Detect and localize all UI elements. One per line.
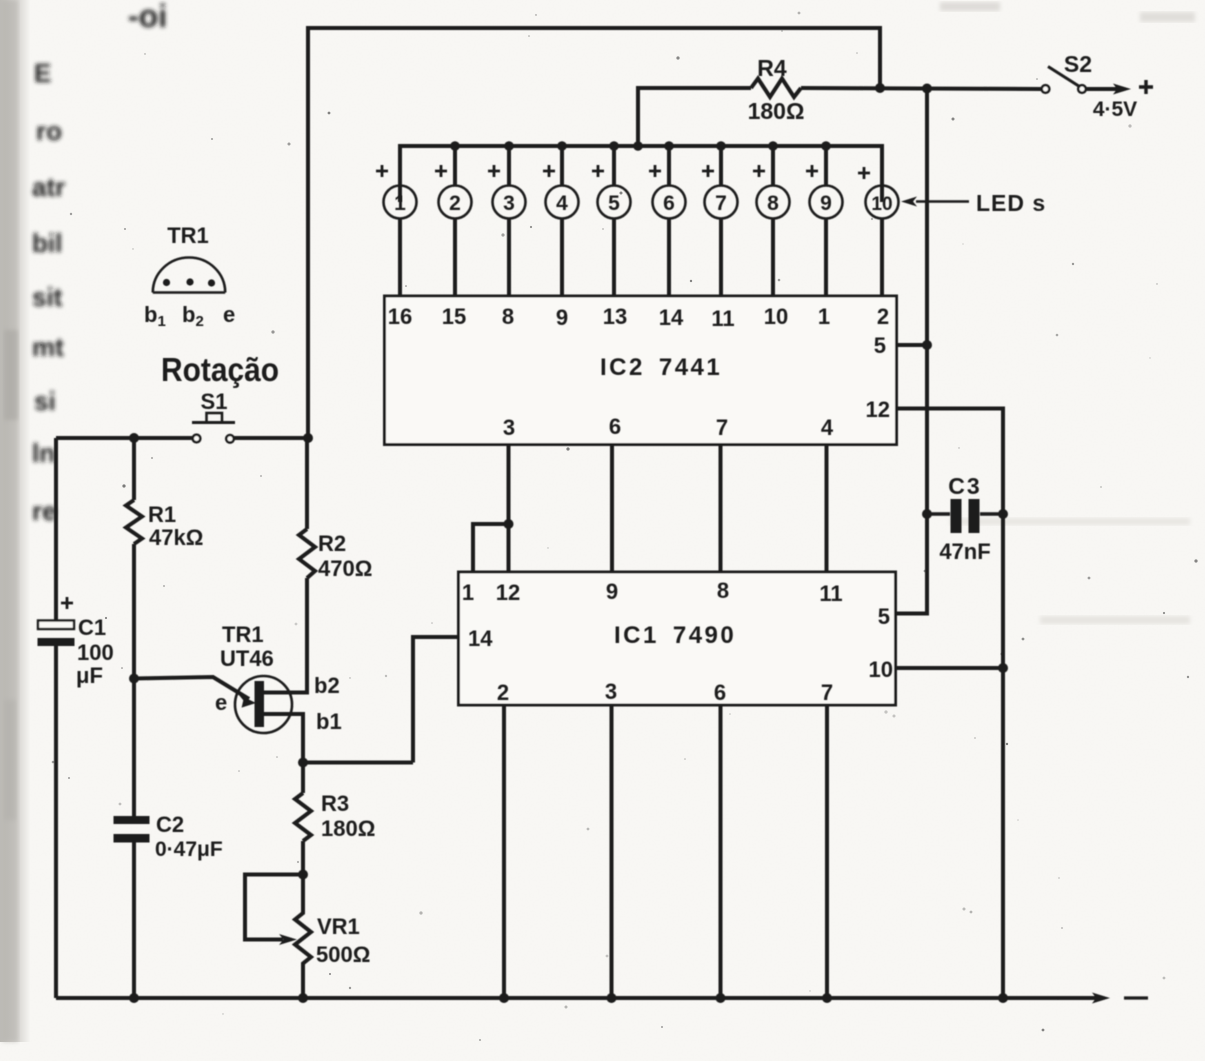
switch S1 (192, 413, 235, 443)
ground rail arrowhead (1092, 993, 1110, 1004)
wire IC2 pin6 to IC1 pin9 (610, 445, 614, 573)
svg-text:10: 10 (871, 194, 892, 215)
svg-text:TR1: TR1 (222, 622, 264, 647)
svg-text:R3: R3 (321, 791, 349, 816)
wire VR1 wiper loop (245, 875, 303, 940)
node VR1 top junction (298, 870, 308, 880)
wire S1 row right (234, 436, 309, 440)
capacitor C3 (927, 499, 1003, 533)
svg-text:10: 10 (869, 657, 893, 682)
svg-text:e: e (223, 302, 235, 327)
node b1 junction (298, 758, 308, 768)
wire S2 to supply arrow (1086, 84, 1131, 95)
VR1 wiper arrowhead (279, 934, 297, 945)
wire IC1 pin6 down (719, 705, 723, 998)
svg-text:1: 1 (394, 192, 406, 215)
node C3 right junction (998, 509, 1008, 519)
ground rail dash (1124, 996, 1148, 999)
svg-text:2: 2 (449, 192, 461, 215)
svg-text:-oi: -oi (128, 0, 167, 34)
svg-text:15: 15 (442, 304, 466, 329)
svg-text:6: 6 (663, 192, 675, 215)
node C3 left junction (922, 509, 932, 519)
svg-text:sit: sit (32, 282, 63, 312)
node bus junctions (450, 141, 831, 151)
svg-text:re: re (32, 496, 57, 526)
LED D5 (598, 186, 631, 297)
wire IC2 pin3 to IC1 pin12 (507, 445, 511, 573)
IC2 pin labels top (388, 304, 889, 331)
svg-text:3: 3 (503, 415, 515, 440)
svg-text:e: e (215, 690, 227, 715)
wire IC1 pin10 to right column (896, 666, 1004, 670)
svg-text:8: 8 (502, 304, 514, 329)
LED D2 (439, 186, 472, 297)
svg-text:5: 5 (878, 604, 890, 629)
wire IC2 pin5 to +V column (897, 343, 928, 347)
wire R2 column (305, 438, 309, 529)
svg-text:12: 12 (866, 397, 890, 422)
wire S1 row left (56, 436, 193, 440)
svg-text:4·5V: 4·5V (1093, 98, 1137, 121)
label supply plus (1139, 80, 1153, 94)
svg-text:9: 9 (556, 305, 568, 330)
wire R1 column upper (132, 438, 136, 500)
wire LED column 5 (612, 146, 616, 186)
LED D6 (653, 186, 686, 297)
svg-text:470Ω: 470Ω (318, 556, 372, 581)
svg-text:4: 4 (556, 192, 568, 215)
LED D4 (546, 186, 579, 297)
svg-text:0·47μF: 0·47μF (155, 838, 223, 861)
wire IC1 pin3 down (610, 705, 614, 998)
wire IC1 pin2 down (502, 705, 506, 998)
node R1 top junction (129, 433, 139, 443)
wire LED column 8 (771, 146, 775, 186)
svg-text:ln: ln (32, 438, 55, 468)
svg-text:11: 11 (819, 581, 842, 606)
svg-text:μF: μF (76, 663, 103, 688)
potentiometer VR1 (295, 902, 311, 974)
LED D1 (384, 186, 417, 297)
svg-text:si: si (34, 386, 56, 416)
wire LED column 4 (560, 146, 564, 186)
svg-text:9: 9 (606, 579, 618, 604)
svg-text:4: 4 (821, 415, 834, 440)
svg-text:5: 5 (874, 333, 886, 358)
wire R2 to b2 (263, 578, 307, 693)
LED numbers (394, 192, 892, 215)
wire VR1 top lead (301, 875, 305, 903)
wire IC2 pin4 to IC1 pin11 (825, 445, 829, 573)
svg-text:VR1: VR1 (317, 914, 360, 939)
transistor TR1 pinout symbol (153, 258, 225, 293)
wire R3 top lead (301, 763, 305, 794)
svg-text:7: 7 (715, 192, 727, 215)
wire LED column 2 (453, 146, 457, 186)
node IC2 pin5 junction (922, 340, 932, 350)
wire C2 to ground rail (132, 843, 136, 999)
svg-text:IC17490: IC17490 (614, 622, 736, 649)
wire top rail (308, 28, 880, 438)
wire b1 to IC1 pin14 (303, 761, 413, 765)
svg-text:bil: bil (32, 228, 62, 258)
svg-text:S1: S1 (201, 389, 228, 414)
wire LED column 9 (824, 146, 828, 186)
wire LED column 6 (667, 146, 671, 186)
IC1 pin labels top (462, 578, 843, 606)
svg-text:C3: C3 (948, 473, 981, 499)
svg-text:8: 8 (717, 578, 729, 603)
svg-text:6: 6 (714, 680, 726, 705)
resistor R3 (295, 793, 311, 841)
transistor TR1 (UJT) (134, 676, 292, 733)
svg-text:100: 100 (77, 640, 114, 665)
svg-text:Rotação: Rotação (161, 351, 279, 388)
wire +V column (896, 89, 928, 614)
svg-text:TR1: TR1 (167, 223, 209, 248)
wire b1 lead (263, 714, 303, 763)
LED D8 (757, 186, 790, 297)
LED D7 (705, 186, 738, 297)
svg-text:13: 13 (603, 304, 627, 329)
resistor R1 (126, 500, 142, 544)
svg-text:mt: mt (32, 332, 64, 362)
svg-text:14: 14 (659, 305, 684, 330)
svg-text:b2: b2 (314, 673, 340, 698)
wire R3 to VR1 junction (301, 841, 305, 875)
wire IC1 pin14 (413, 637, 459, 763)
wire IC1 pin1 strap (473, 524, 509, 572)
node emitter junction (129, 674, 139, 684)
svg-text:10: 10 (764, 304, 788, 329)
wire LED column 3 (507, 146, 511, 186)
svg-text:6: 6 (609, 414, 621, 439)
svg-text:2: 2 (497, 680, 509, 705)
svg-text:UT46: UT46 (220, 646, 274, 671)
IC1 pin labels bottom (497, 679, 833, 705)
wire IC2 pin12 to C3 right column (897, 409, 1004, 999)
node rail junctions (129, 993, 1008, 1003)
wire left rail lower (54, 646, 58, 998)
svg-text:180Ω: 180Ω (748, 98, 805, 124)
node +V column junction (922, 84, 932, 94)
svg-text:IC27441: IC27441 (600, 354, 722, 381)
anode bus (400, 146, 882, 202)
resistor R4 (751, 79, 801, 98)
svg-text:8: 8 (767, 192, 779, 215)
svg-text:16: 16 (388, 304, 412, 329)
capacitor C1 (38, 621, 75, 647)
svg-text:9: 9 (820, 192, 832, 215)
switch S2 (1042, 67, 1086, 93)
svg-text:1: 1 (462, 580, 474, 605)
svg-text:47kΩ: 47kΩ (149, 525, 203, 550)
wire R1 to emitter junction (132, 544, 136, 816)
IC2 pin labels bottom (503, 414, 834, 440)
LED plus polarity marks (376, 165, 870, 179)
node pin1 strap junction (504, 519, 514, 529)
wire IC1 pin7 down (825, 705, 829, 998)
wire R4 feed horizontal (638, 88, 751, 146)
node S1 right junction (303, 433, 313, 443)
svg-text:500Ω: 500Ω (316, 942, 370, 967)
LED D10 (866, 186, 899, 297)
IC U1 box (IC1 7490) (459, 572, 896, 705)
svg-text:7: 7 (716, 415, 728, 440)
node pin10 junction (998, 663, 1008, 673)
svg-text:7: 7 (821, 680, 833, 705)
svg-text:b1: b1 (316, 709, 342, 734)
wire IC2 pin7 to IC1 pin8 (719, 445, 723, 573)
LED D9 (810, 186, 843, 297)
LEDs pointer arrow (901, 197, 969, 207)
svg-text:atr: atr (32, 172, 65, 202)
ground rail (56, 996, 1101, 1000)
svg-text:5: 5 (608, 192, 620, 215)
svg-text:2: 2 (877, 304, 889, 329)
wire R4 to S2 (801, 88, 1041, 89)
svg-text:3: 3 (503, 192, 515, 215)
wire VR1 to ground rail (301, 974, 305, 998)
svg-text:47nF: 47nF (939, 539, 990, 564)
svg-text:ro: ro (36, 116, 62, 146)
svg-text:R2: R2 (318, 531, 346, 556)
label C1 plus (61, 597, 73, 609)
resistor R2 (299, 529, 315, 578)
wire LED column 7 (719, 146, 723, 186)
capacitor C2 (114, 816, 150, 843)
LED D3 (493, 186, 526, 297)
svg-text:C2: C2 (156, 812, 184, 837)
IC U2 box (IC2 7441) (385, 296, 897, 445)
svg-text:R1: R1 (148, 502, 176, 527)
wire left rail upper (54, 438, 58, 621)
svg-text:1: 1 (818, 304, 830, 329)
svg-text:11: 11 (711, 306, 734, 331)
svg-text:3: 3 (605, 679, 617, 704)
svg-text:14: 14 (468, 626, 493, 651)
node R4-top junction (875, 83, 885, 93)
svg-text:C1: C1 (78, 615, 106, 640)
svg-text:180Ω: 180Ω (321, 816, 375, 841)
svg-text:S2: S2 (1064, 51, 1092, 77)
svg-text:E: E (34, 58, 51, 88)
svg-text:LED s: LED s (976, 190, 1046, 216)
svg-text:12: 12 (496, 580, 520, 605)
svg-text:R4: R4 (757, 55, 787, 81)
